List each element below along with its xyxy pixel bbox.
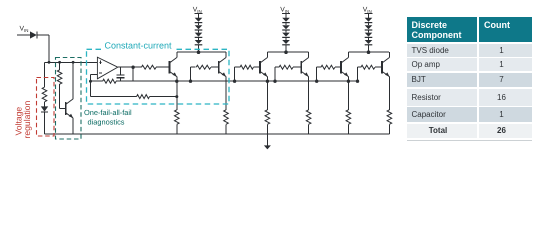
svg-text:diagnostics: diagnostics xyxy=(88,118,125,127)
svg-text:VIN: VIN xyxy=(20,26,29,33)
svg-text:One-fail-all-fail: One-fail-all-fail xyxy=(84,108,132,117)
svg-text:regulation: regulation xyxy=(22,101,32,139)
svg-text:VIN: VIN xyxy=(280,7,289,14)
svg-text:VIN: VIN xyxy=(193,7,202,14)
svg-text:Constant-current: Constant-current xyxy=(105,40,173,50)
svg-text:VIN: VIN xyxy=(363,7,372,14)
